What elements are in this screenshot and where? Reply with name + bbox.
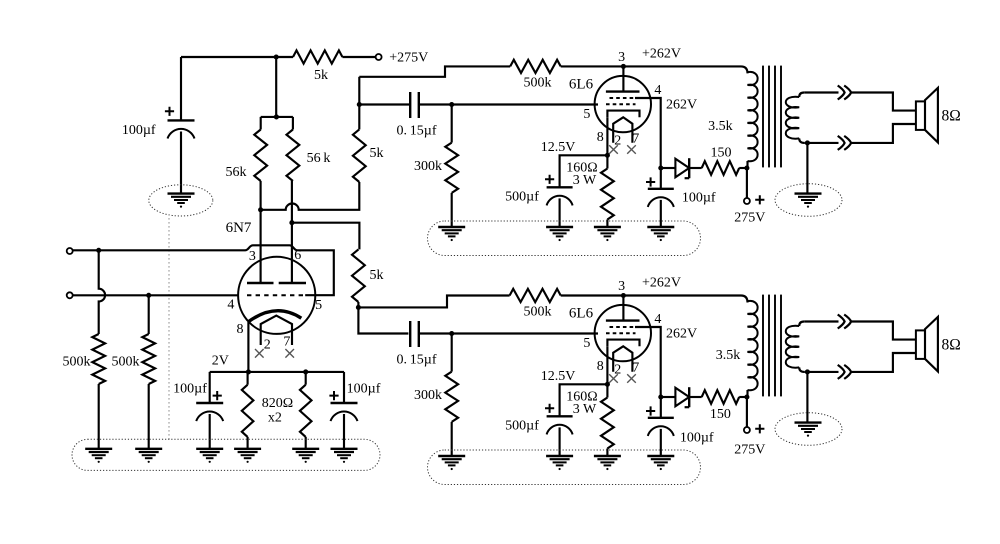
node cathode rail 2 (303, 369, 308, 374)
wire R5 bottom to 500k step ch2 (358, 296, 509, 308)
wire input2 down to R8 (148, 295, 150, 334)
svg-text:0. 15µf: 0. 15µf (396, 352, 436, 367)
svg-text:262V: 262V (666, 98, 697, 113)
label R11a value 300k (414, 159, 442, 174)
wire cathode pin8 b (606, 346, 608, 384)
wire R4 top lead (358, 77, 360, 130)
label R7 value 500k (63, 355, 91, 370)
control grid dashed a (606, 103, 636, 105)
node B+ junction (274, 54, 279, 59)
cathode bracket 6L6 a (607, 111, 639, 118)
wire secondary bottom a (804, 124, 916, 143)
screen grid dashed b (610, 326, 636, 328)
label C4b value 0.15µf (396, 352, 436, 367)
label C1 value 100µf (122, 123, 156, 138)
wire coupling node a (359, 103, 410, 105)
label C5b value 500µf (505, 418, 539, 433)
svg-text:150: 150 (711, 146, 732, 161)
wire coupling node b (358, 307, 408, 333)
pin label 3 a (618, 50, 625, 65)
wire 500µf to ground a (559, 198, 561, 227)
pin label 8 (237, 322, 244, 337)
label 262V b (666, 327, 697, 342)
ground g5 (292, 449, 319, 463)
svg-text:100µf: 100µf (122, 123, 156, 138)
pin label 2 b (614, 363, 621, 378)
wire R10 to ground (305, 437, 307, 449)
ground bus stadium b (428, 450, 701, 485)
label R13a power 3 W (573, 173, 597, 188)
wire R3 bottom to pin6 node (291, 181, 293, 223)
wire cathode pin8 a (606, 117, 608, 155)
svg-text:8: 8 (597, 359, 604, 374)
svg-text:500µf: 500µf (505, 418, 539, 433)
wire input 2 (73, 294, 239, 296)
connector chevrons bottom a (838, 136, 851, 150)
ground ellipse secondary b (775, 413, 842, 446)
wire cap C1 top (180, 57, 182, 120)
svg-text:3: 3 (618, 50, 625, 65)
wire screen to pin4 a (635, 98, 661, 168)
capacitor C2 100µf (196, 403, 223, 421)
heater 6L6 a (613, 117, 632, 142)
cathode arc 6N7 (248, 311, 301, 322)
ground g7 a (438, 227, 465, 241)
label 12.5V a (541, 140, 576, 155)
label C5a value 500µf (505, 189, 539, 204)
wire 300k stub b (451, 334, 453, 372)
svg-text:2V: 2V (212, 354, 229, 369)
svg-text:3: 3 (618, 279, 625, 294)
node 300k top a (449, 102, 454, 107)
wire 160 to ground b (606, 449, 608, 457)
label tube 6N7 (226, 220, 252, 236)
svg-text:300k: 300k (414, 388, 442, 403)
svg-text:3 W: 3 W (573, 402, 597, 417)
label 262V a (666, 98, 697, 113)
wire pin6 lead (291, 223, 293, 283)
pin label 7 a (632, 132, 639, 147)
control grid dashed b (606, 332, 636, 334)
tube U2a 6L6 envelope (595, 76, 651, 132)
wire C3 to ground (343, 414, 345, 449)
svg-text:3: 3 (249, 249, 256, 264)
label T1b 3.5k (716, 348, 741, 363)
svg-text:5: 5 (583, 107, 590, 122)
grid dashed 6N7 (247, 294, 306, 296)
wire R2 bottom to plate node (260, 181, 262, 210)
wire pin4 node to diode b (661, 396, 676, 398)
x mark pin2 a (609, 145, 618, 154)
wire to +275V terminal (342, 56, 375, 58)
svg-text:8: 8 (597, 130, 604, 145)
node 56k pair top (274, 114, 279, 119)
capacitor C3 100µf (331, 403, 358, 421)
wire 300k to ground b (451, 422, 453, 456)
resistor R11b 300k (445, 372, 458, 422)
wire 100µf to ground a (660, 200, 662, 227)
label C5a polarity + (545, 175, 554, 184)
svg-text:5: 5 (315, 298, 322, 313)
wire screen terminal a (746, 168, 748, 198)
node cathode rail 1 (246, 369, 251, 374)
terminal input jack 2 (67, 292, 73, 298)
wire 150 to transformer a (739, 167, 747, 169)
wire pin3 lead (260, 210, 262, 283)
node input 2 junction (146, 293, 151, 298)
x mark pin7 a (627, 145, 636, 154)
label R13b power 3 W (573, 402, 597, 417)
wire pin3 lead a (622, 66, 624, 91)
ground ellipse under C1 (149, 185, 213, 216)
wire cap to grid b (419, 332, 598, 334)
terminal 275V a (744, 198, 750, 204)
node pin3 a (621, 64, 626, 69)
resistor R3 56k (287, 130, 300, 182)
label 6L6 a (569, 77, 594, 93)
transformer core a (763, 66, 781, 168)
node R5 bottom junction (356, 305, 361, 310)
label LSa 8Ω (942, 108, 961, 125)
pin label 5 a (583, 107, 590, 122)
svg-text:4: 4 (654, 312, 661, 327)
svg-text:3.5k: 3.5k (716, 348, 741, 363)
svg-text:500k: 500k (63, 355, 91, 370)
x mark pin7 b (627, 374, 636, 383)
cathode bracket 6L6 b (607, 340, 639, 347)
svg-text:5: 5 (583, 336, 590, 351)
pin label 5 (315, 298, 322, 313)
transformer core b (763, 295, 781, 397)
label R14a value 150 (711, 146, 732, 161)
wire 100µf to ground b (660, 429, 662, 456)
svg-text:5k: 5k (370, 268, 384, 283)
transformer T1b primary (748, 301, 758, 397)
wire screen terminal b (746, 397, 748, 427)
wire input 1 (73, 249, 245, 251)
svg-text:262V: 262V (666, 327, 697, 342)
svg-text:3.5k: 3.5k (708, 119, 733, 134)
tube U2b 6L6 envelope (595, 305, 651, 361)
ground under secondary a (795, 194, 822, 208)
label 12.5V b (541, 369, 576, 384)
heater 6N7 (261, 316, 292, 345)
svg-text:500µf: 500µf (505, 189, 539, 204)
x mark pin7 (285, 349, 294, 358)
wire cap to grid a (419, 103, 598, 105)
node secondary ground b (805, 369, 810, 374)
svg-text:0. 15µf: 0. 15µf (396, 123, 436, 138)
svg-text:820Ω: 820Ω (262, 396, 293, 411)
capacitor C5b 500µf (547, 416, 573, 434)
x mark pin2 (255, 349, 264, 358)
svg-text:56k: 56k (226, 165, 247, 180)
ground under C1 (168, 194, 195, 208)
label C3 polarity + (329, 391, 338, 400)
label R9 x2 (268, 411, 282, 426)
ground g9 b (594, 456, 621, 470)
wire 160 to ground a (606, 220, 608, 228)
label R8 value 500k (112, 355, 140, 370)
svg-text:6N7: 6N7 (226, 220, 252, 236)
label R13b value 160Ω (566, 390, 597, 405)
svg-text:5k: 5k (314, 68, 328, 83)
ground g8 b (546, 456, 573, 470)
wire secondary top a (804, 93, 916, 111)
svg-text:150: 150 (710, 407, 731, 422)
resistor R13a 160Ω (601, 169, 614, 220)
guide dotted line ground link (168, 214, 170, 440)
resistor R14a 150 (702, 161, 740, 175)
pin label 2 a (614, 134, 621, 149)
label R11b value 300k (414, 388, 442, 403)
screen grid dashed a (610, 97, 636, 99)
label T1a 3.5k (708, 119, 733, 134)
plate anode 6L6 b (606, 319, 640, 321)
wire secondary top b (804, 322, 916, 340)
label terminal + a (755, 195, 764, 204)
ground ellipse secondary a (775, 184, 842, 217)
resistor R9 820Ω (242, 385, 254, 437)
speaker LSb (916, 317, 938, 372)
svg-text:3 W: 3 W (573, 173, 597, 188)
label terminal + b (755, 424, 764, 433)
resistor R7 500k (92, 334, 105, 384)
resistor R2 56k (254, 130, 267, 182)
pin label 4 b (654, 312, 661, 327)
capacitor C4b 0.15µf plates (410, 321, 419, 347)
transformer T1a primary (748, 72, 758, 168)
ground g4 (234, 449, 261, 463)
label C6a polarity + (646, 177, 655, 186)
wire plate to primary a (623, 66, 747, 73)
ground bus stadium left (72, 439, 380, 470)
wire R8 to ground (148, 384, 150, 449)
wire secondary to ground a (806, 143, 808, 194)
wire cathode to 160 a (606, 155, 608, 168)
svg-text:12.5V: 12.5V (541, 369, 576, 384)
heater 6L6 b (613, 346, 632, 371)
svg-text:100µf: 100µf (682, 190, 716, 205)
pin label 6 (294, 248, 301, 263)
pin label 5 b (583, 336, 590, 351)
ground g8 a (546, 227, 573, 241)
wire plate2 to R5 (292, 223, 360, 250)
pin label 7 (283, 335, 290, 350)
wire 500k to pin3 a (561, 65, 624, 67)
label +275V (389, 51, 428, 66)
label R2 value 56k (226, 165, 247, 180)
capacitor C1 100µf (168, 120, 195, 138)
capacitor C5a 500µf (547, 187, 573, 205)
speaker LSa (916, 88, 938, 142)
pin label 4 a (654, 83, 661, 98)
node 300k top b (449, 331, 454, 336)
transformer T1a secondary (786, 93, 804, 143)
svg-text:8: 8 (237, 322, 244, 337)
wire secondary to ground b (806, 372, 808, 423)
label R4 value 5k (370, 146, 384, 161)
label 6L6 b (569, 306, 594, 322)
node pin3 b (621, 293, 626, 298)
label LSb 8Ω (942, 337, 961, 354)
wire 56k right stub (292, 117, 294, 130)
x mark pin2 b (609, 374, 618, 383)
svg-text:x2: x2 (268, 411, 282, 426)
connector chevrons top a (838, 86, 851, 100)
label R14b value 150 (710, 407, 731, 422)
resistor R5 5k (352, 249, 365, 302)
wire 6N7 grid2 hat (245, 245, 334, 295)
ground bus stadium a (428, 221, 701, 256)
wire C2 to ground (209, 414, 211, 449)
ground g9 a (594, 227, 621, 241)
label +262V a (642, 47, 681, 62)
svg-text:275V: 275V (734, 443, 765, 458)
transformer T1b secondary (786, 322, 804, 372)
ground g7 b (438, 456, 465, 470)
label C2 polarity + (213, 391, 222, 400)
pin label 7 b (632, 361, 639, 376)
label R9 value 820Ω (262, 396, 293, 411)
svg-text:8Ω: 8Ω (942, 337, 961, 354)
node plate pin3 (258, 207, 263, 212)
capacitor C6a 100µf (648, 189, 674, 207)
pin label 3 b (618, 279, 625, 294)
svg-text:275V: 275V (734, 211, 765, 226)
label C6a value 100µf (682, 190, 716, 205)
resistor R10 820Ω (300, 385, 312, 437)
label C6b value 100µf (680, 431, 714, 446)
ground under secondary b (795, 423, 822, 437)
label C4a value 0.15µf (396, 123, 436, 138)
resistor R11a 300k (445, 143, 458, 193)
node R4 coupling junction (357, 102, 362, 107)
svg-text:4: 4 (227, 298, 234, 313)
wire C1 to ground (180, 132, 182, 194)
wire 2V rail (210, 371, 344, 373)
svg-text:500k: 500k (112, 355, 140, 370)
node screen supply b (744, 394, 749, 399)
capacitor C4a 0.15µf plates (410, 92, 419, 118)
svg-text:+262V: +262V (642, 276, 681, 291)
wire 300k to ground a (451, 193, 453, 227)
pin label 4 (227, 298, 234, 313)
plate anode 1 6N7 (247, 282, 274, 284)
pin label 8 a (597, 130, 604, 145)
ground g1 (85, 449, 112, 463)
node pin4 diode b (658, 394, 663, 399)
svg-text:7: 7 (632, 361, 639, 376)
label R3 value 56k (307, 151, 331, 166)
svg-text:+262V: +262V (642, 47, 681, 62)
wire 820 right stub (305, 372, 307, 385)
svg-text:5k: 5k (370, 146, 384, 161)
terminal 275V b (744, 427, 750, 433)
label C1 polarity + (165, 107, 174, 116)
node secondary ground a (805, 140, 810, 145)
resistor R8 500k (142, 334, 155, 384)
wire 56k top bar (261, 116, 293, 118)
label 275V a (734, 211, 765, 226)
node cathode a (605, 153, 610, 158)
tube U1 6N7 envelope (238, 257, 315, 334)
wire plate1 to R4 with hop (261, 182, 360, 210)
ground g3 (196, 449, 223, 463)
label C3 value 100µf (347, 382, 381, 397)
wire 100µf stub a (660, 168, 662, 189)
label R1 value 5k (314, 68, 328, 83)
plate anode 2 6N7 (279, 282, 306, 284)
resistor R13b 160Ω (601, 398, 614, 449)
svg-text:12.5V: 12.5V (541, 140, 576, 155)
svg-text:2: 2 (264, 338, 271, 353)
wire R7 to ground (98, 384, 100, 449)
wire 100µf stub b (660, 397, 662, 418)
wire plate to primary b (623, 296, 747, 303)
node pin4 diode a (658, 165, 663, 170)
wire cathode pin8 down (247, 322, 249, 372)
wire B+ down to 56k pair (275, 57, 277, 117)
diode D1b (675, 387, 689, 407)
wire input1 down to R7 with hop (99, 250, 105, 334)
diode D1a (675, 158, 689, 178)
resistor R12a 500k (510, 60, 561, 73)
wire diode to 150 b (689, 396, 702, 398)
wire cathode to 500µf a (560, 155, 608, 187)
label +262V b (642, 276, 681, 291)
node input 1 junction (96, 248, 101, 253)
wire screen to pin4 b (635, 327, 661, 397)
label 2V (212, 354, 229, 369)
label R12b value 500k (524, 305, 552, 320)
svg-text:500k: 500k (524, 76, 552, 91)
label C2 value 100µf (173, 382, 207, 397)
wire 500µf to ground b (559, 427, 561, 456)
label C6b polarity + (646, 406, 655, 415)
svg-text:56 k: 56 k (307, 151, 331, 166)
wire cathode to 500µf b (560, 384, 608, 416)
resistor R14b 150 (702, 390, 740, 404)
wire B+ rail top (181, 56, 293, 58)
svg-text:8Ω: 8Ω (942, 108, 961, 125)
svg-text:500k: 500k (524, 305, 552, 320)
ground g6 (331, 449, 358, 463)
wire 150 to transformer b (739, 396, 747, 398)
wire R4 top to 500k step (359, 66, 510, 76)
wire rail left down (209, 372, 211, 403)
svg-text:7: 7 (283, 335, 290, 350)
node cathode b (605, 382, 610, 387)
wire secondary bottom b (804, 353, 916, 372)
connector chevrons bottom b (838, 365, 851, 379)
wire cathode to 160 b (606, 384, 608, 397)
svg-text:100µf: 100µf (680, 431, 714, 446)
svg-text:6L6: 6L6 (569, 77, 594, 93)
wire pin4 node to diode a (661, 167, 676, 169)
label R12a value 500k (524, 76, 552, 91)
ground g10 b (647, 456, 674, 470)
svg-text:4: 4 (654, 83, 661, 98)
ground g10 a (647, 227, 674, 241)
resistor R1 5k (B+ dropper) (293, 50, 342, 63)
ground g2 (135, 449, 162, 463)
wire rail right down (343, 372, 345, 403)
wire 300k stub a (451, 105, 453, 143)
resistor R12b 500k (510, 289, 561, 302)
label C5b polarity + (545, 404, 554, 413)
svg-text:6: 6 (294, 248, 301, 263)
